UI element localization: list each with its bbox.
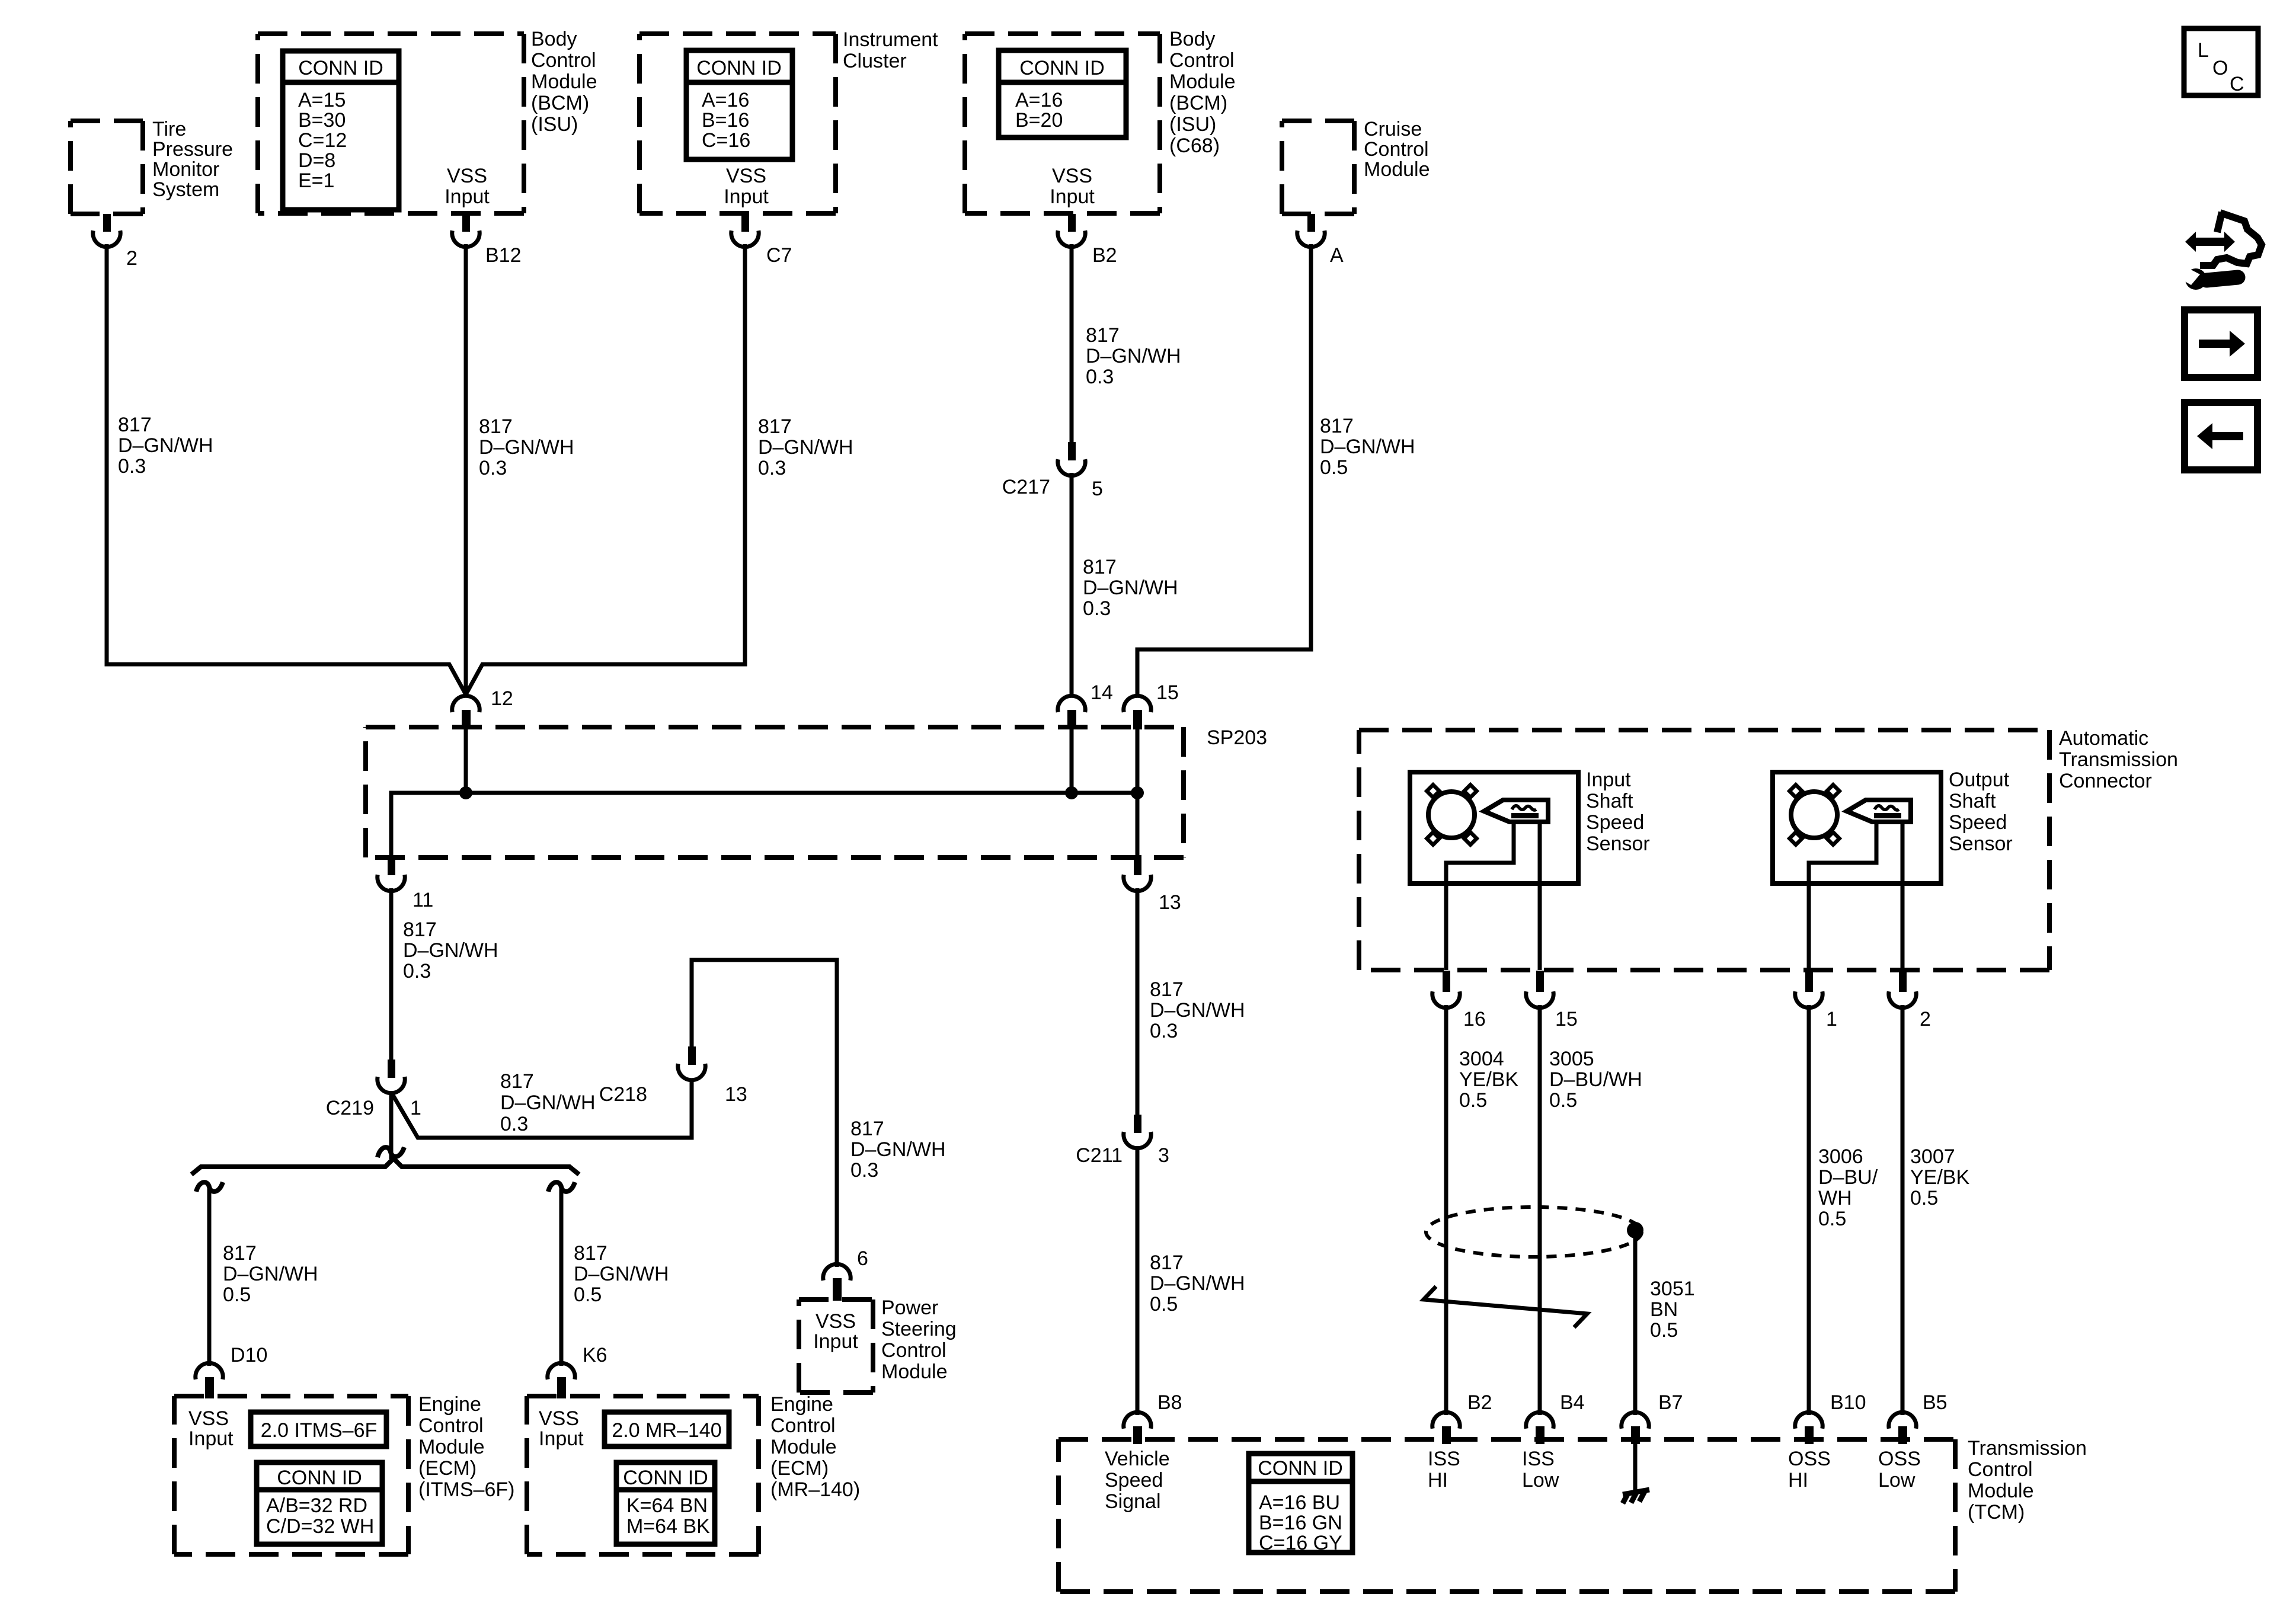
svg-text:VSSInput: VSSInput [724,165,769,208]
icon forward arrow box [2185,310,2257,377]
wire 817 from BCM C68 pin B2 to connector C217 [1070,244,1074,443]
module box Tire Pressure Monitor System [71,121,143,214]
svg-text:VSSInput: VSSInput [813,1310,858,1353]
wire 817 from BCM pin B12 to splice junction 12 [464,244,468,696]
wire from junction 12 into splice bus [464,728,468,793]
wire from output sensor to ATC pin 1 [1807,884,1811,970]
svg-text:K6: K6 [583,1344,607,1366]
svg-text:SP203: SP203 [1207,726,1267,749]
wire 3005 from ATC pin 15 to TCM pin B4 [1538,1005,1542,1415]
wire from junction 14 into splice bus [1070,728,1074,793]
svg-text:CruiseControlModule: CruiseControlModule [1364,118,1430,181]
connector pin B10 of TCM [1795,1412,1822,1444]
ground symbol at B7 [1623,1490,1649,1503]
module box Transmission Control Module (TCM) [1059,1439,1955,1592]
junction 12 connector (merge of three wires) [452,696,479,729]
wire from output sensor to ATC pin 2 [1901,884,1905,970]
svg-text:C: C [2230,73,2244,95]
svg-text:D10: D10 [231,1344,267,1366]
wire 817 from C211 to TCM pin B8 [1136,1146,1140,1415]
junction dot at 12 [459,786,472,799]
svg-text:CONN ID: CONN ID [277,1467,362,1489]
connector pin B8 of TCM [1124,1412,1151,1444]
svg-text:CONN ID: CONN ID [696,57,782,79]
wire 3007 from ATC pin 2 to TCM pin B5 [1901,1005,1905,1415]
svg-text:14: 14 [1091,681,1113,704]
sub box 2.0 MR-140 [605,1412,729,1446]
svg-text:B4: B4 [1560,1391,1585,1414]
splice bus SP203 [391,793,1137,857]
sensor icon arrow tag (output) [1847,800,1911,822]
svg-text:1: 1 [410,1097,421,1119]
svg-text:VSSInput: VSSInput [1050,165,1095,208]
sensor icon circle with lugs (output) [1789,785,1839,844]
module box Body Control Module (BCM)(ISU)(C68) [965,34,1160,213]
connector pin 2 of ATC [1889,971,1916,1008]
svg-text:L: L [2198,39,2209,62]
inline connector C211 pin 3 [1124,1115,1151,1148]
sensor internal wiring (output) [1809,824,1876,884]
module box Instrument Cluster [639,34,836,213]
connector pin 6 of Power Steering Control Module [823,1264,850,1301]
svg-text:15: 15 [1156,681,1179,704]
svg-text:2: 2 [1920,1008,1931,1030]
twisted mark across ISS wires [1424,1286,1587,1327]
svg-text:6: 6 [857,1247,868,1270]
wire from C218 up and right to power steering pin 6 [692,960,837,1267]
svg-text:OutputShaftSpeedSensor: OutputShaftSpeedSensor [1949,769,2013,855]
connector pin 1 of ATC [1795,971,1822,1008]
wire branch from C219 pin 1 to connector C218 [391,1080,692,1138]
twisted pair ellipse around ISS wires [1426,1207,1642,1257]
svg-text:K=64 BNM=64 BK: K=64 BNM=64 BK [626,1494,710,1538]
wire 3004 from ATC pin 16 to TCM pin B2 [1444,1005,1448,1415]
svg-text:C211: C211 [1076,1144,1123,1167]
svg-text:VSSInput: VSSInput [445,165,490,208]
wire from input sensor to ATC pin 15 [1538,884,1542,970]
CONN ID table of BCM (A=15 B=30 C=12 D=8 E=1) [283,51,399,210]
svg-text:CONN ID: CONN ID [298,57,383,79]
connector pin B7 of TCM [1622,1412,1649,1444]
drain junction dot on ellipse [1627,1222,1643,1238]
wire 3006 from ATC pin 1 to TCM pin B10 [1807,1005,1811,1415]
svg-text:B10: B10 [1830,1391,1866,1414]
svg-text:16: 16 [1463,1008,1486,1030]
junction 14 connector [1058,696,1085,729]
wire from junction 15 into splice bus [1136,728,1140,793]
sensor icon arrow tag (input) [1484,800,1548,822]
module box Power Steering Control Module VSS Input [799,1299,873,1393]
wire 817 from SP203 pin 13 to connector C211 [1136,888,1140,1115]
connector pin D10 of ECM ITMS-6F [196,1363,223,1398]
connector pin K6 of ECM MR-140 [548,1363,575,1398]
CONN ID table of Instrument Cluster (A=16 B=16 C=16) [686,50,792,159]
svg-text:C7: C7 [766,244,792,267]
module box Engine Control Module (ITMS-6F) [174,1396,408,1554]
svg-text:13: 13 [725,1083,747,1106]
junction dot at 15 [1131,786,1144,799]
svg-text:O: O [2212,57,2228,79]
svg-text:C217: C217 [1002,476,1050,498]
connector pin B12 of BCM [452,214,479,247]
module box Cruise Control Module [1282,121,1354,214]
connector box Automatic Transmission Connector [1359,730,2049,970]
svg-text:A: A [1330,244,1344,267]
wire 3051 drain to TCM pin B7 [1633,1230,1638,1415]
icon diagnostic arrows with wrench [2180,212,2262,290]
splice pack SP203 dashed box [366,727,1184,857]
splice brace under C219 [191,1158,579,1174]
inline connector C218 pin 13 [678,1046,705,1080]
svg-text:ISSLow: ISSLow [1522,1448,1559,1491]
connector pin 11 leaving SP203 [378,855,405,891]
sensor box Input Shaft Speed Sensor [1410,772,1578,884]
module box Engine Control Module (MR-140) [527,1396,759,1554]
wire 817 from Cruise pin A to splice junction 15 [1137,244,1311,696]
connector pin A of Cruise Control Module [1297,214,1325,247]
svg-text:5: 5 [1092,478,1103,500]
svg-text:C219: C219 [326,1097,374,1119]
ground wire inside TCM [1633,1444,1638,1491]
module box Body Control Module (BCM)(ISU) [258,34,524,213]
sensor icon circle with lugs (input) [1427,785,1476,844]
svg-text:CONN ID: CONN ID [1258,1457,1343,1480]
svg-text:B8: B8 [1157,1391,1182,1414]
svg-text:3: 3 [1158,1144,1169,1167]
inline connector C219 pin 1 [378,1060,405,1093]
svg-text:CONN ID: CONN ID [1019,57,1105,79]
connector pin B5 of TCM [1889,1412,1916,1444]
connector pin 13 leaving SP203 [1124,793,1151,891]
svg-text:B7: B7 [1658,1391,1683,1414]
twisted mark on left branch wire [196,1182,223,1192]
svg-text:2.0 ITMS–6F: 2.0 ITMS–6F [261,1419,378,1442]
svg-text:VSSInput: VSSInput [188,1407,234,1450]
wire 817 from C217 to splice junction 14 [1070,473,1074,696]
wire from C219 down to splice brace [389,1091,394,1159]
svg-text:VSSInput: VSSInput [539,1407,584,1450]
connector pin B2 of BCM C68 [1058,214,1085,247]
svg-text:B2: B2 [1467,1391,1492,1414]
sub box 2.0 ITMS-6F [251,1412,386,1446]
wire 817 from Instrument Cluster pin C7 to splice junction 12 [466,244,745,694]
wire from input sensor to ATC pin 16 [1444,884,1448,970]
wire 817 from SP203 pin 11 to connector C219 [389,888,394,1061]
legend box LOC [2184,28,2258,95]
svg-text:B2: B2 [1092,244,1117,267]
svg-text:13: 13 [1159,891,1181,914]
wire 817 from TPMS pin 2 to splice junction 12 [107,244,466,694]
connector pin 16 of ATC [1432,971,1460,1008]
CONN ID table of ECM MR-140 [616,1462,715,1544]
svg-text:OSSLow: OSSLow [1878,1448,1921,1491]
connector pin 2 of TPMS [93,214,120,247]
svg-text:1: 1 [1826,1008,1837,1030]
svg-text:VehicleSpeedSignal: VehicleSpeedSignal [1105,1448,1170,1513]
svg-text:11: 11 [412,889,433,911]
junction dot at 14 [1065,786,1078,799]
connector pin B4 of TCM [1526,1412,1553,1444]
svg-text:CONN ID: CONN ID [623,1467,708,1489]
connector pin B2 of TCM [1432,1412,1460,1444]
inline connector C217 pin 5 [1058,442,1085,476]
svg-text:B12: B12 [485,244,522,267]
connector pin C7 of Instrument Cluster [731,214,759,247]
wire 817 left branch to ECM ITMS-6F pin D10 [207,1185,212,1366]
sensor box Output Shaft Speed Sensor [1773,772,1941,884]
svg-text:A=16B=20: A=16B=20 [1015,89,1063,132]
svg-text:A=16B=16C=16: A=16B=16C=16 [702,89,750,152]
CONN ID table of BCM C68 (A=16 B=20) [999,50,1126,137]
svg-text:C218: C218 [599,1083,647,1106]
svg-text:12: 12 [491,687,513,710]
svg-text:2.0 MR–140: 2.0 MR–140 [612,1419,721,1442]
twisted mark on C219 branch wire [378,1147,404,1157]
twisted mark on right branch wire [548,1182,575,1192]
CONN ID table of TCM [1249,1454,1352,1554]
connector pin 15 of ATC [1526,971,1553,1008]
wire 817 right branch to ECM MR-140 pin K6 [559,1185,564,1366]
icon backward arrow box [2185,402,2257,470]
svg-text:A=16 BUB=16 GNC=16 GY: A=16 BUB=16 GNC=16 GY [1259,1491,1342,1554]
svg-text:15: 15 [1555,1008,1578,1030]
svg-text:A/B=32 RDC/D=32 WH: A/B=32 RDC/D=32 WH [266,1494,374,1538]
svg-text:2: 2 [126,247,137,270]
junction 15 connector [1124,696,1151,729]
svg-text:B5: B5 [1923,1391,1948,1414]
sensor internal wiring (input) [1446,824,1514,884]
CONN ID table of ECM ITMS-6F [257,1462,382,1544]
